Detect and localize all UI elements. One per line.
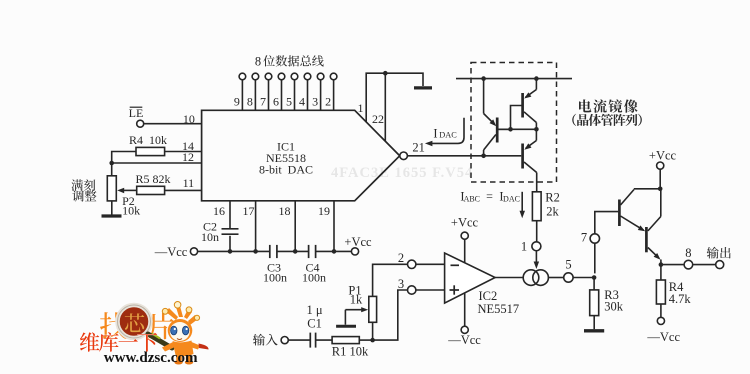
svg-text:C1: C1: [307, 317, 322, 331]
svg-text:4: 4: [299, 95, 305, 109]
op IC1 NE5518 8-bit DAC body: [202, 110, 400, 201]
svg-text:www.dzsc.com: www.dzsc.com: [104, 350, 198, 366]
svg-text:4FAC3E 1655 F.V54: 4FAC3E 1655 F.V54: [331, 165, 473, 181]
svg-text:LE: LE: [129, 106, 144, 120]
resistor R5 82k: [137, 186, 165, 194]
terminal +Vcc (right): [659, 169, 661, 189]
transistor Q3 (bottom PNP): [521, 144, 524, 169]
svg-text:16: 16: [213, 204, 225, 218]
svg-text:10k: 10k: [122, 204, 140, 218]
svg-text:R4 10k: R4 10k: [129, 133, 167, 147]
svg-text:+Vcc: +Vcc: [451, 216, 479, 230]
svg-text:8: 8: [255, 55, 261, 69]
svg-text:5: 5: [565, 257, 571, 271]
wire pin1 arrow into current source: [535, 251, 537, 263]
Q5 emitter: [648, 248, 659, 259]
data bus terminal pin 8: [252, 73, 259, 80]
current label I DAC with arrow: [428, 118, 465, 144]
label full-scale adjust (满刻调整): [71, 179, 83, 190]
svg-text:19: 19: [318, 204, 330, 218]
supply rail wire: [198, 250, 270, 252]
wire R4 left to node: [112, 152, 136, 164]
svg-text:5: 5: [286, 95, 292, 109]
wire to terminal 3: [373, 290, 408, 340]
wire pin 16 (through C2): [229, 201, 231, 228]
svg-text:22: 22: [372, 112, 384, 126]
svg-text:2: 2: [398, 251, 404, 265]
svg-text:7: 7: [581, 231, 587, 245]
svg-text:30k: 30k: [604, 300, 624, 314]
collector rail to +Vcc: [634, 188, 661, 190]
resistor R4 10k: [136, 147, 165, 155]
capacitor C2 10n: [222, 228, 239, 230]
terminal 5: [564, 273, 573, 282]
svg-text:18: 18: [279, 204, 291, 218]
label current mirror (电流镜像): [579, 99, 591, 112]
transistor Q1 (left PNP): [496, 118, 499, 143]
data bus terminal pin 2: [330, 73, 337, 80]
potentiometer P2 10k: [111, 163, 113, 176]
junction R4/pin12/P2: [109, 161, 114, 166]
mirror mid wire: [497, 128, 536, 130]
svg-text:8: 8: [247, 95, 253, 109]
top rail of mirror: [456, 78, 572, 80]
transistor Q5 (NPN darlington 2): [645, 227, 648, 252]
wire to terminal 5: [548, 277, 563, 279]
ground (P2): [102, 214, 122, 217]
svg-text:4.7k: 4.7k: [669, 292, 692, 306]
svg-text:6: 6: [273, 95, 279, 109]
data bus terminal pin 7: [265, 73, 272, 80]
terminal 3 (non-inverting input): [416, 289, 445, 291]
wire pot top to terminal 2: [373, 264, 408, 296]
svg-text:8: 8: [685, 246, 691, 260]
svg-text:1: 1: [358, 101, 364, 115]
ground (P1 wiper): [336, 325, 356, 328]
svg-text:100n: 100n: [263, 271, 287, 285]
input terminal (输入): [253, 334, 265, 346]
wire to terminal 8: [661, 264, 684, 266]
svg-text:+Vcc: +Vcc: [649, 149, 677, 163]
svg-text:1k: 1k: [350, 293, 363, 307]
output terminal (输出): [716, 261, 724, 269]
Q4 emitter into Q5 base: [621, 216, 644, 230]
svg-text:2k: 2k: [546, 205, 559, 219]
svg-text:DAC: DAC: [503, 195, 520, 204]
svg-text:21: 21: [412, 141, 425, 155]
svg-text:1 μ: 1 μ: [307, 303, 323, 317]
wire pin 14: [165, 151, 202, 153]
wire junction up through terminal 7: [594, 243, 596, 273]
data bus terminal pin 3: [317, 73, 324, 80]
wire pin 12: [112, 162, 202, 164]
label transistor array (晶体管阵列): [572, 114, 576, 126]
wire 5 to junction: [573, 277, 595, 279]
-Vcc stem of IC2: [464, 293, 466, 326]
watermark logo www.dzsc.com: [80, 302, 209, 367]
data bus terminal pin 4: [304, 73, 311, 80]
transistor Q4 (NPN darlington 1): [618, 200, 621, 227]
svg-text:=: =: [486, 189, 493, 203]
junction pin1/pin22: [383, 71, 388, 76]
wire pin 17: [255, 201, 257, 252]
svg-text:1: 1: [521, 240, 527, 254]
data bus terminal pin 6: [278, 73, 285, 80]
svg-text:I: I: [433, 127, 437, 141]
data bus terminal pin 5: [291, 73, 298, 80]
wire pin 11: [165, 189, 202, 191]
ground (R3): [584, 329, 604, 332]
faint scan ghost text: [331, 165, 473, 181]
svg-text:9: 9: [234, 95, 240, 109]
wire pin 18: [294, 201, 296, 252]
ground (top, pins 1+22): [414, 86, 432, 89]
svg-text:7: 7: [260, 95, 266, 109]
IC2 output wire: [495, 277, 523, 279]
svg-text:17: 17: [243, 204, 255, 218]
wire pin 19: [333, 201, 335, 252]
svg-text:—Vcc: —Vcc: [154, 245, 188, 259]
wire R5 to P2 wiper with arrow: [122, 189, 137, 191]
svg-text:NE5517: NE5517: [478, 302, 520, 316]
svg-text:ABC: ABC: [464, 195, 480, 204]
svg-text:—Vcc: —Vcc: [447, 333, 481, 347]
minus input symbol: [451, 264, 460, 266]
svg-text:11: 11: [183, 176, 195, 190]
wire pin 22 vertical: [384, 73, 386, 141]
potentiometer P1 1k: [372, 322, 374, 340]
resistor R2 2k: [532, 192, 541, 221]
data bus terminal pin 9: [239, 73, 246, 80]
svg-text:—Vcc: —Vcc: [646, 330, 680, 344]
svg-text:IC2: IC2: [479, 289, 498, 303]
terminal -Vcc (right): [657, 317, 664, 324]
wire pin 21 (DAC output to mirror): [407, 155, 521, 157]
terminal pin 1: [532, 242, 541, 251]
terminal 7: [590, 234, 599, 243]
svg-text:DAC: DAC: [439, 131, 457, 140]
wire pin 1 from IC1 top slant up: [366, 73, 423, 122]
current mirror dashed box (transistor array): [471, 63, 557, 183]
+Vcc stem of IC2: [464, 239, 466, 262]
svg-text:3: 3: [398, 277, 404, 291]
resistor R4 4.7k: [660, 265, 662, 280]
resistor R1 10k: [332, 337, 359, 344]
svg-text:10: 10: [183, 112, 195, 126]
svg-text:R2: R2: [545, 191, 560, 205]
op-amp IC2 NE5517 triangle: [445, 253, 496, 303]
svg-text:12: 12: [182, 150, 194, 164]
capacitor C4 100n: [308, 245, 310, 258]
capacitor C3 100n: [269, 245, 271, 258]
P1 wiper to ground: [345, 309, 364, 311]
terminal 8: [684, 260, 693, 269]
terminal 2 (inverting input): [416, 263, 445, 265]
svg-text:8-bit DAC: 8-bit DAC: [259, 163, 313, 177]
svg-text:+Vcc: +Vcc: [344, 235, 372, 249]
plus input symbol: [450, 289, 460, 291]
wire junction down to R3: [593, 278, 595, 290]
svg-text:R1 10k: R1 10k: [332, 345, 369, 359]
svg-text:3: 3: [312, 95, 318, 109]
svg-text:R5 82k: R5 82k: [135, 172, 170, 186]
controlled current source symbol (double circle): [523, 270, 539, 286]
IC1 output bubble pin 21: [400, 152, 408, 160]
svg-text:100n: 100n: [302, 271, 326, 285]
transistor Q2 (top right PNP): [521, 93, 524, 118]
wire pin 10: [144, 123, 202, 125]
capacitor C1 1u: [309, 333, 311, 348]
wire R2 to pin 1 terminal: [536, 221, 538, 242]
svg-text:2: 2: [325, 95, 331, 109]
svg-text:10n: 10n: [201, 230, 219, 244]
resistor R3 30k: [590, 290, 599, 316]
